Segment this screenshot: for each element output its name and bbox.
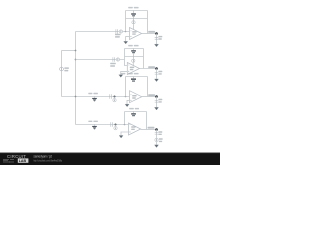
ground bars mid rail B4: [133, 112, 135, 114]
wire stem to hanging ammeter B4: [115, 125, 117, 127]
wire corner from bus into block4: [76, 124, 129, 126]
capacitor plates in chain B1: [155, 38, 159, 40]
op-amp OA2: [127, 63, 139, 75]
ground at end of chain B4: [155, 145, 159, 148]
label net name out3: [148, 94, 155, 96]
wire plus-input stub to ground B4: [121, 132, 129, 135]
wire second left vertical: [61, 51, 63, 97]
ammeter hanging below wire B4: [114, 127, 117, 130]
wire feedback second rail B2: [125, 56, 144, 58]
label net name out4: [148, 127, 155, 129]
label above rail B3: [121, 73, 139, 75]
CircuitLab logo: [3, 154, 28, 163]
label right of voltmeter B4: [159, 138, 163, 142]
node junction at bridge: [75, 50, 77, 52]
wire stem to ground B4 chain: [156, 142, 158, 145]
ground below op-amp1: [124, 41, 128, 44]
node junction feedback tap B4: [124, 124, 126, 126]
op-amp OA3: [130, 91, 142, 103]
capacitor C4 plates on input wire: [111, 122, 113, 126]
wire input to op-amp1: [76, 31, 130, 33]
wire feedback left vertical B4: [124, 112, 126, 125]
wire feedback second rail B1: [126, 18, 148, 20]
wire input to block2: [76, 59, 125, 61]
wire output B1: [142, 33, 157, 35]
label right of chain B2: [158, 71, 162, 75]
label right of chain B3: [158, 99, 162, 103]
label C1 value below wire: [115, 34, 121, 38]
wire output chain down B2: [156, 69, 158, 79]
wire output chain down B1: [156, 34, 158, 45]
wire plus-input stub to ground B3: [127, 100, 130, 104]
wire output B3: [142, 96, 157, 98]
wire feedback left vertical B2: [124, 49, 126, 60]
ammeter AM5 on left vertical: [60, 67, 64, 71]
capacitor plates in chain B3: [155, 101, 159, 103]
wire supply stem to op-amp top B2: [132, 63, 134, 66]
node junction bus crossing B3: [75, 96, 77, 98]
op-amp OA1: [130, 28, 142, 40]
node output dot B3: [155, 95, 158, 98]
ammeter hanging below wire B3: [113, 99, 116, 102]
wire feedback right vertical B4: [146, 112, 148, 130]
wire feedback top rail B3: [126, 76, 148, 78]
ground below op-amp4: [119, 136, 123, 139]
wire feedback right vertical B3: [147, 77, 149, 97]
op-amp OA4: [129, 123, 141, 135]
ground tap below wire B4: [94, 125, 96, 126]
capacitor C3 plates on input wire: [110, 94, 112, 98]
wire supply stem to op-amp top B1: [133, 24, 135, 29]
capacitor plates in chain B4: [155, 133, 159, 135]
label AM5: [64, 67, 69, 71]
capacitor plates in chain B2: [155, 73, 159, 75]
capacitor C2 plates on input wire: [113, 57, 115, 61]
wire feedback left vertical B3: [125, 77, 127, 97]
ground at end of chain B1: [155, 44, 159, 47]
footer bar: [0, 153, 220, 165]
label above rail B4: [129, 108, 139, 110]
ground bars mid rail B3: [133, 77, 135, 79]
wire elbow into minus input B2: [125, 60, 128, 66]
ammeter AM2 inline: [116, 58, 119, 61]
ground bars mid rail B1: [133, 11, 135, 14]
label right of chain B4: [158, 131, 162, 135]
label C2 below wire: [110, 63, 116, 67]
label right of chain B1: [158, 36, 162, 40]
node junction feedback tap B1: [125, 31, 127, 33]
ground below op-amp2: [119, 75, 123, 78]
voltmeter circle in chain B4: [155, 138, 158, 141]
node output dot B1: [155, 32, 158, 35]
ground below op-amp3: [125, 104, 129, 107]
capacitor C1 plates on input wire: [116, 29, 118, 33]
label net name out1: [148, 31, 155, 33]
wire output chain down B4: [156, 130, 158, 139]
node output dot B2: [155, 67, 158, 70]
wire feedback right vertical B2: [143, 49, 145, 69]
node junction for hanging meter B3: [114, 96, 116, 98]
wire feedback top rail B1: [126, 10, 148, 12]
label net name out2: [148, 66, 155, 68]
label R2 above rail B2: [128, 45, 138, 47]
wire stem to hanging ammeter B3: [114, 97, 116, 99]
wire plus-input stub to ground B2: [121, 71, 128, 74]
wire feedback right vertical B1: [147, 11, 149, 34]
label above ground tap B3: [88, 93, 98, 94]
node junction at bus B2: [75, 59, 77, 61]
ground tap below wire B3: [94, 97, 96, 98]
wire input to block3 from left corner: [62, 96, 130, 98]
ammeter AM1 inline: [119, 30, 122, 33]
wire output B4: [141, 129, 157, 131]
label above ground tap B4: [88, 121, 98, 122]
svg-text:http://circuitlab.com/c/6rw4bw: http://circuitlab.com/c/6rw4bw5/3t8p: [34, 158, 63, 162]
ground at end of chain B2: [155, 79, 159, 82]
ground at end of chain B3: [155, 107, 159, 110]
ammeter circle in feedback chain B2: [132, 59, 135, 62]
wire plus-input stub to ground B1: [126, 37, 130, 42]
wire feedback left vertical B1: [125, 11, 127, 32]
wire output chain down B3: [156, 97, 158, 108]
ammeter circle in feedback chain B1: [132, 21, 135, 24]
svg-text:LAB: LAB: [19, 159, 27, 163]
ground bars mid rail B2: [133, 49, 135, 51]
wire bridge between verticals: [62, 50, 76, 52]
wire feedback top rail B2: [125, 48, 144, 50]
wire output B2: [140, 68, 157, 70]
wire feedback top rail B4: [125, 111, 147, 113]
label R1 above rail B1: [128, 7, 138, 8]
node output dot B4: [155, 128, 158, 131]
node junction for hanging meter B4: [115, 124, 117, 126]
wire long left vertical bus: [75, 32, 77, 125]
node junction feedback tap B3: [125, 96, 127, 98]
